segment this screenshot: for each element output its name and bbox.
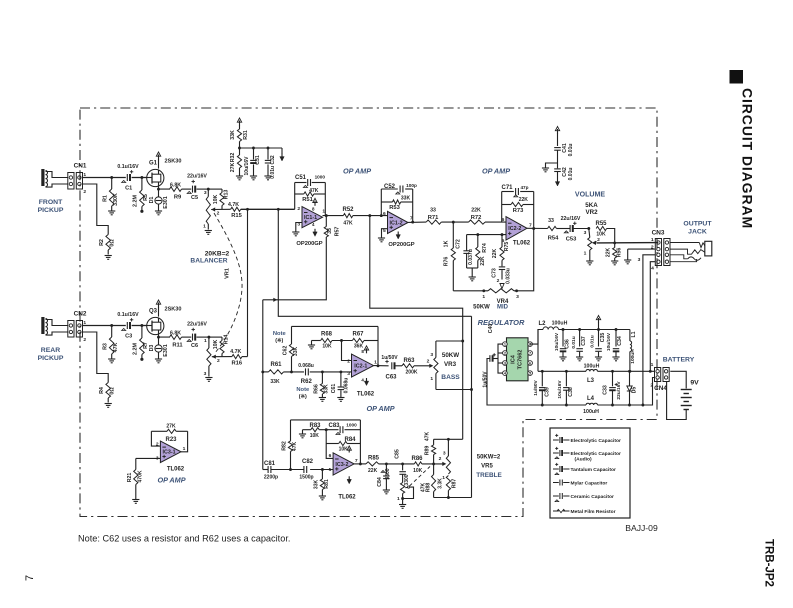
- svg-text:33: 33: [548, 218, 554, 224]
- IC2-1 pin4 arrow: [364, 378, 368, 386]
- svg-text:VR1: VR1: [225, 268, 231, 279]
- IC1-1 pin3 ground: [292, 223, 302, 236]
- label TL062 IC2-2: [513, 240, 531, 246]
- label TL062 IC3-1: [167, 467, 185, 473]
- svg-text:330K: 330K: [113, 193, 119, 206]
- svg-text:L3: L3: [587, 378, 595, 384]
- op-amp IC1-1: [297, 206, 325, 228]
- svg-text:VR5: VR5: [481, 464, 493, 470]
- arrow down bias: [280, 148, 284, 161]
- svg-text:2200p: 2200p: [264, 475, 278, 481]
- resistor R21: [127, 458, 144, 499]
- svg-text:100uH: 100uH: [552, 321, 568, 327]
- svg-text:0.033u: 0.033u: [506, 268, 512, 284]
- resistor R11: [170, 330, 184, 348]
- svg-text:50KW: 50KW: [442, 352, 459, 359]
- label OP AMP 2: [482, 167, 510, 176]
- svg-text:R16: R16: [232, 361, 243, 367]
- svg-text:33K: 33K: [324, 384, 330, 394]
- svg-text:Note: Note: [273, 331, 287, 337]
- svg-text:2: 2: [83, 189, 86, 195]
- resistor R3: [102, 326, 119, 359]
- VR3 top rail: [436, 340, 463, 342]
- node IC1-1 out: [323, 214, 344, 217]
- wire R72 to IC2-2: [485, 221, 506, 223]
- svg-text:0.01u: 0.01u: [590, 335, 596, 347]
- svg-text:2SK30: 2SK30: [165, 159, 182, 165]
- ground C61: [337, 398, 344, 402]
- capacitor C31: [244, 148, 261, 176]
- svg-text:0.01u C32: 0.01u C32: [270, 155, 276, 179]
- svg-text:IC2-1: IC2-1: [354, 363, 367, 369]
- resistor R85: [366, 456, 380, 474]
- ground R56: [611, 261, 618, 265]
- wire R55 down: [607, 229, 617, 245]
- svg-text:G1: G1: [149, 161, 158, 167]
- label VR3 BASS: [441, 352, 460, 381]
- bus from R57: [278, 237, 326, 300]
- node VR2 top: [584, 227, 591, 236]
- svg-text:PICKUP: PICKUP: [38, 355, 64, 362]
- svg-text:2: 2: [497, 278, 500, 284]
- svg-text:2: 2: [427, 359, 430, 365]
- svg-text:22K: 22K: [471, 208, 481, 214]
- svg-text:R89: R89: [425, 446, 431, 456]
- svg-text:0Ω: 0Ω: [110, 387, 116, 395]
- svg-text:33K: 33K: [230, 130, 236, 140]
- svg-text:C63: C63: [386, 375, 398, 381]
- svg-text:27K: 27K: [230, 162, 236, 172]
- svg-text:IC2-2: IC2-2: [508, 226, 521, 232]
- svg-text:OP200GP: OP200GP: [388, 242, 414, 248]
- op-amp IC2-2: [502, 217, 532, 244]
- svg-text:1u/50V: 1u/50V: [483, 371, 489, 388]
- label OP AMP 3: [366, 404, 394, 413]
- node R5: [140, 176, 143, 179]
- IC1-1 pin4 arrow: [313, 229, 317, 237]
- svg-text:R21: R21: [127, 473, 133, 483]
- svg-text:22u/16V: 22u/16V: [187, 321, 207, 327]
- svg-text:IC1-2: IC1-2: [390, 220, 403, 226]
- resistor R23: [166, 424, 178, 444]
- svg-text:R81: R81: [324, 479, 330, 489]
- svg-text:R55: R55: [596, 221, 608, 227]
- svg-text:1: 1: [584, 251, 587, 257]
- svg-text:R68: R68: [321, 332, 333, 338]
- wire VR1 wiper: [211, 209, 231, 216]
- title CIRCUIT DIAGRAM: [740, 88, 756, 229]
- svg-text:C33: C33: [602, 385, 608, 395]
- svg-text:R75: R75: [504, 242, 510, 252]
- svg-text:10K: 10K: [596, 231, 606, 237]
- svg-text:33K: 33K: [314, 480, 320, 490]
- bass inner rail: [308, 341, 321, 349]
- front pickup: [41, 169, 68, 187]
- resistor R81: [314, 470, 331, 496]
- legend box: [550, 428, 630, 518]
- svg-text:CN2: CN2: [74, 311, 87, 318]
- svg-text:R11: R11: [172, 342, 183, 348]
- connector CN1: [68, 163, 87, 196]
- svg-text:0.01u: 0.01u: [571, 336, 577, 348]
- svg-text:L1: L1: [631, 331, 637, 337]
- svg-text:CN4: CN4: [654, 385, 667, 392]
- feedback loop R23: [151, 431, 187, 452]
- svg-text:OP AMP: OP AMP: [157, 476, 185, 485]
- wire C82 to pin5: [310, 468, 333, 471]
- wire R86 to VR5: [422, 456, 447, 466]
- svg-text:C35: C35: [600, 333, 606, 343]
- IC3-1 input wire: [136, 457, 161, 459]
- svg-text:R76: R76: [444, 257, 450, 267]
- svg-text:Q3: Q3: [149, 309, 158, 315]
- svg-text:REGULATOR: REGULATOR: [478, 318, 525, 327]
- wire CN1 pin2 to R2: [83, 184, 108, 235]
- label REAR PICKUP: [38, 347, 64, 362]
- capacitor C34: [606, 330, 623, 361]
- svg-text:6: 6: [502, 217, 505, 223]
- svg-text:2: 2: [597, 237, 600, 243]
- IC1-2 pin4 arrow: [396, 232, 400, 240]
- capacitor C35: [590, 316, 606, 361]
- connector CN3: [638, 230, 670, 272]
- svg-text:3300: 3300: [385, 468, 391, 479]
- pot VR2: [584, 229, 592, 261]
- VR2 wiper: [592, 237, 658, 245]
- node R1: [110, 176, 113, 179]
- svg-text:10u/16V: 10u/16V: [606, 332, 612, 351]
- resistor R82: [281, 438, 298, 470]
- resistor R2: [99, 235, 116, 255]
- svg-text:R52: R52: [343, 207, 355, 213]
- transistor Q3 2SK30: [146, 307, 181, 335]
- svg-text:R72: R72: [471, 215, 482, 221]
- svg-text:3.3K: 3.3K: [438, 478, 444, 489]
- capacitor C41: [554, 143, 574, 163]
- svg-text:C37: C37: [581, 336, 587, 346]
- svg-text:100uH: 100uH: [630, 349, 636, 364]
- VR3 bottom rail: [436, 389, 472, 391]
- svg-text:1: 1: [430, 376, 433, 382]
- IC3-2 pin4 arrow: [347, 476, 351, 484]
- transistor Q1 2SK30: [146, 159, 181, 187]
- svg-text:IC1-1: IC1-1: [304, 215, 317, 221]
- C40 wiring: [493, 344, 502, 373]
- resistor R9: [170, 182, 182, 200]
- supply arrow C41: [555, 127, 559, 147]
- op-amp IC3-2: [329, 453, 358, 475]
- feedback box C51: [295, 183, 326, 216]
- svg-text:100uH: 100uH: [584, 363, 600, 369]
- svg-text:33: 33: [430, 208, 436, 214]
- svg-text:0.068u: 0.068u: [343, 378, 349, 394]
- ground R2: [105, 256, 112, 260]
- label Note 1: [273, 331, 287, 344]
- svg-text:BAJJ-09: BAJJ-09: [625, 523, 658, 533]
- svg-text:1u/50V: 1u/50V: [533, 379, 539, 395]
- ground D1: [155, 211, 162, 215]
- resistor R75: [492, 233, 510, 260]
- wire R67 right: [364, 340, 378, 342]
- bus arrow wire: [263, 298, 279, 302]
- svg-text:7: 7: [24, 575, 36, 581]
- capacitor C53: [557, 216, 589, 243]
- svg-text:0Ω: 0Ω: [110, 239, 116, 247]
- svg-text:1: 1: [374, 360, 377, 366]
- svg-text:R56: R56: [617, 248, 623, 258]
- capacitor C3: [117, 312, 139, 339]
- svg-text:Mylar Capacitor: Mylar Capacitor: [571, 480, 608, 486]
- svg-text:47K: 47K: [292, 442, 298, 452]
- svg-text:2: 2: [297, 206, 300, 212]
- capacitor C51: [295, 175, 325, 188]
- label VOLUME: [575, 192, 605, 199]
- svg-text:10K: 10K: [413, 468, 423, 474]
- label OP200GP IC1-1: [296, 241, 322, 247]
- svg-text:VR2: VR2: [585, 209, 598, 216]
- label OP200GP IC1-2: [388, 242, 414, 248]
- svg-text:R51: R51: [302, 197, 313, 203]
- label TL062 IC3-2: [338, 495, 356, 501]
- pot R88: [397, 483, 431, 505]
- svg-text:1: 1: [204, 338, 207, 344]
- battery cell: [681, 380, 699, 410]
- svg-text:R63: R63: [404, 358, 416, 364]
- svg-text:2: 2: [217, 211, 220, 217]
- svg-text:1: 1: [482, 294, 485, 300]
- svg-text:R3: R3: [102, 343, 108, 350]
- supply arrow R31: [237, 118, 241, 129]
- ground D3: [155, 359, 162, 363]
- VR4 wiper arrow: [497, 278, 504, 289]
- svg-text:R86: R86: [412, 456, 424, 462]
- svg-text:0.01u: 0.01u: [568, 168, 574, 181]
- wire to VR1/R13: [204, 188, 222, 196]
- capacitor C37: [571, 330, 587, 361]
- inductor L4: [583, 396, 599, 415]
- svg-text:10K: 10K: [339, 447, 349, 453]
- svg-text:CIRCUIT DIAGRAM: CIRCUIT DIAGRAM: [740, 88, 756, 229]
- svg-text:3: 3: [638, 257, 641, 263]
- svg-text:22K: 22K: [368, 468, 378, 474]
- svg-text:Note: C62 uses a resistor and: Note: C62 uses a resistor and R62 uses a…: [78, 534, 290, 544]
- svg-text:2.2M: 2.2M: [133, 195, 139, 207]
- svg-text:BASS: BASS: [441, 374, 460, 381]
- wire front main: [83, 177, 147, 179]
- svg-text:3: 3: [204, 190, 207, 196]
- inductor L1: [630, 330, 637, 372]
- svg-text:CN3: CN3: [652, 230, 665, 237]
- diode D3 E301: [149, 336, 169, 359]
- resistor R16: [230, 349, 242, 366]
- resistor R63: [402, 358, 418, 376]
- label 5KA VR2: [585, 202, 598, 216]
- capacitor C5: [182, 173, 209, 201]
- regulator top rail: [530, 328, 630, 344]
- svg-text:R4: R4: [99, 387, 105, 394]
- resistor R86: [412, 456, 424, 474]
- svg-text:7: 7: [410, 215, 413, 221]
- svg-text:D3: D3: [149, 345, 155, 352]
- svg-text:REAR: REAR: [41, 347, 60, 354]
- svg-text:C39: C39: [544, 387, 550, 397]
- inductor L3: [584, 363, 600, 384]
- bus2 to VR3 bottom: [470, 316, 473, 497]
- drawing number BAJJ-09: [625, 523, 658, 533]
- label TL062 IC2-1: [357, 392, 375, 398]
- svg-text:R2: R2: [99, 239, 105, 246]
- resistor R14: [213, 335, 230, 357]
- svg-text:0.1u/16V: 0.1u/16V: [117, 164, 139, 170]
- resistor R76: [444, 222, 456, 291]
- svg-text:0.01u: 0.01u: [568, 144, 574, 157]
- resistor R31: [230, 129, 249, 148]
- svg-text:47K: 47K: [113, 342, 119, 352]
- wire rear main: [83, 325, 147, 327]
- IC2-1 pin8 arrow: [364, 346, 368, 354]
- capacitor R62 (note): [298, 363, 314, 385]
- wire R62 to pin3: [310, 370, 352, 373]
- svg-text:47K: 47K: [309, 188, 319, 194]
- inductor L2: [539, 321, 568, 330]
- svg-text:C83: C83: [329, 423, 341, 429]
- svg-text:R73: R73: [513, 208, 524, 214]
- capacitor C63: [381, 355, 402, 381]
- svg-text:R32: R32: [230, 153, 236, 163]
- label VR4 MID: [473, 299, 509, 311]
- label OUTPUT JACK: [683, 221, 712, 236]
- resistor below junction: [432, 464, 436, 498]
- capacitor C39: [533, 371, 551, 405]
- svg-text:R71: R71: [428, 215, 439, 221]
- svg-text:IC4: IC4: [511, 354, 517, 364]
- svg-text:C6: C6: [191, 343, 198, 349]
- svg-text:1000: 1000: [315, 175, 326, 180]
- ground C31: [250, 176, 257, 180]
- capacitor C81: [264, 461, 278, 481]
- feedback box C71: [502, 192, 534, 229]
- svg-text:Ceramic Capacitor: Ceramic Capacitor: [571, 494, 614, 500]
- svg-text:R54: R54: [548, 236, 559, 242]
- svg-text:6: 6: [329, 453, 332, 459]
- svg-text:0.1u/16V: 0.1u/16V: [117, 312, 139, 318]
- wire R52 to IC1-2: [353, 214, 388, 217]
- svg-text:3: 3: [443, 450, 446, 456]
- treble upper rail: [434, 438, 463, 441]
- regulator mid rail: [538, 330, 655, 373]
- svg-text:Metal Film Resistor: Metal Film Resistor: [571, 509, 616, 515]
- treble bottom rail: [434, 496, 472, 499]
- svg-text:1: 1: [397, 496, 400, 502]
- svg-text:TC7662: TC7662: [518, 350, 524, 370]
- svg-text:6.8K: 6.8K: [170, 182, 181, 188]
- svg-text:3300: 3300: [404, 474, 410, 485]
- svg-text:TL062: TL062: [357, 392, 375, 398]
- svg-text:OP AMP: OP AMP: [343, 167, 371, 176]
- capacitor C82: [299, 459, 313, 481]
- svg-text:7: 7: [529, 223, 532, 229]
- ground tap C41/C42: [542, 163, 558, 172]
- wire R68-R67 junction: [332, 339, 352, 360]
- IC4 bottom left wire: [0, 0, 1, 1]
- svg-text:3: 3: [584, 230, 587, 236]
- resistor R51: [295, 188, 326, 203]
- svg-text:FRONT: FRONT: [39, 199, 63, 206]
- resistor R56: [605, 243, 622, 261]
- svg-text:R57: R57: [335, 227, 341, 237]
- svg-text:R85: R85: [368, 456, 380, 462]
- svg-text:BALANCER: BALANCER: [190, 258, 227, 265]
- CN3 pin2 ground wire: [624, 249, 655, 264]
- resistor R87: [438, 476, 458, 498]
- svg-text:47K: 47K: [425, 432, 431, 442]
- svg-text:22u/16V: 22u/16V: [561, 216, 581, 222]
- svg-text:50KW=2: 50KW=2: [477, 455, 501, 461]
- svg-text:1u/50V: 1u/50V: [381, 355, 398, 361]
- svg-text:100p: 100p: [406, 183, 417, 188]
- wire Q3 source: [159, 335, 171, 338]
- arrow down C42: [555, 179, 559, 187]
- treble row2 rail: [299, 428, 361, 438]
- capacitor C6: [182, 321, 209, 349]
- svg-text:7: 7: [529, 352, 531, 356]
- svg-text:R1: R1: [102, 195, 108, 202]
- svg-text:2: 2: [217, 358, 220, 364]
- svg-text:3: 3: [430, 352, 433, 358]
- capacitor C71: [502, 185, 529, 197]
- resistor R57: [324, 216, 340, 237]
- svg-text:50KW: 50KW: [473, 305, 490, 311]
- svg-text:22u/16V: 22u/16V: [187, 173, 207, 179]
- svg-text:(※): (※): [275, 337, 283, 344]
- battery 9V wires: [667, 371, 687, 419]
- capacitor C84: [377, 464, 391, 490]
- svg-text:200K: 200K: [406, 370, 418, 376]
- svg-text:C36: C36: [565, 339, 571, 349]
- IC3-2 pin6 wire: [326, 444, 333, 459]
- bus IC1-2 tap: [370, 216, 464, 440]
- label TRB-JP2: [763, 539, 775, 587]
- supply arrow Q3 drain: [156, 300, 160, 317]
- CN3 pin4 wire down: [650, 262, 655, 372]
- svg-text:22K: 22K: [605, 248, 611, 258]
- resistor R4: [99, 383, 116, 403]
- svg-text:L4: L4: [587, 396, 595, 402]
- svg-text:E301: E301: [163, 196, 169, 209]
- output jack symbol: [670, 241, 712, 261]
- svg-text:E301: E301: [163, 344, 169, 357]
- resistor R55: [596, 221, 608, 237]
- svg-text:4.7K: 4.7K: [228, 202, 239, 208]
- svg-text:33: 33: [327, 228, 333, 234]
- svg-text:R66: R66: [313, 384, 319, 394]
- svg-text:L2: L2: [539, 321, 547, 327]
- wire CN2 pin2 to R4: [83, 332, 108, 383]
- pot VR5: [442, 439, 450, 481]
- svg-text:22K: 22K: [492, 249, 498, 259]
- svg-text:R67: R67: [353, 332, 365, 338]
- svg-text:2: 2: [439, 456, 442, 462]
- svg-text:1: 1: [203, 223, 206, 229]
- svg-text:C38: C38: [568, 387, 574, 397]
- rear pickup: [41, 317, 68, 335]
- capacitor C61: [331, 372, 349, 397]
- svg-text:2: 2: [347, 358, 350, 364]
- svg-text:6.8K: 6.8K: [170, 330, 181, 336]
- capacitor C52: [384, 183, 417, 194]
- svg-text:R88: R88: [425, 483, 431, 493]
- mid net rail pin5: [467, 234, 506, 236]
